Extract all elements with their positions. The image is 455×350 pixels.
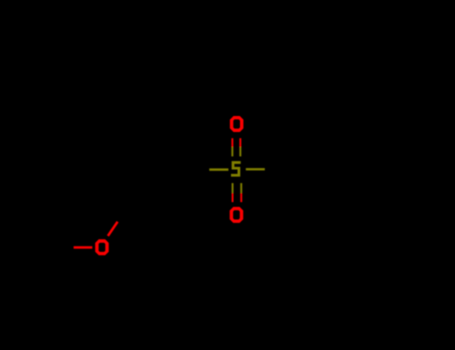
double bond S=O top, olive halves xyxy=(231,147,241,156)
double bond S=O top, red halves xyxy=(231,138,241,147)
bond C-S left (olive half-bond) xyxy=(209,168,228,170)
molecule: 1-methoxy / methylsulfonyl structure (carbon skeleton invisible on black) xyxy=(74,116,265,255)
atom O (sulfonyl bottom oxygen label) xyxy=(230,207,244,223)
double bond S=O bottom, red halves xyxy=(232,193,243,202)
bond O-C1 (ether diagonal half-bond, red) xyxy=(108,222,118,236)
atom O (ether oxygen label) xyxy=(95,239,109,255)
bond S-C right (olive half-bond) xyxy=(246,168,265,170)
atom S (sulfur label) xyxy=(231,163,241,176)
bond CH3-O (ether methyl half-bond, red) xyxy=(74,246,93,249)
atom O (sulfonyl top oxygen label) xyxy=(230,116,244,132)
double bond S=O bottom, olive halves xyxy=(232,183,243,193)
